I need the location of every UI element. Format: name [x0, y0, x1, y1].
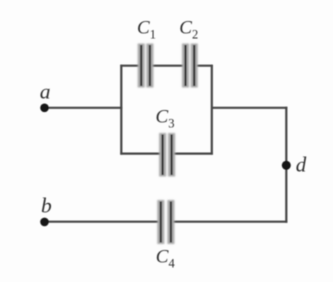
svg-text:b: b [41, 193, 52, 217]
node d (junction dot) [282, 161, 291, 170]
capacitor C2 [186, 44, 195, 88]
wire bottom branch node b to C4 [45, 221, 160, 223]
capacitor C4 [161, 200, 171, 244]
node b (terminal dot) [40, 218, 49, 227]
wire top branch left segment [120, 65, 140, 67]
wire outer right vertical [285, 107, 287, 223]
svg-text:d: d [296, 152, 307, 176]
node a (terminal dot) [40, 104, 49, 113]
wire top branch right segment [195, 65, 213, 67]
capacitor C3 [163, 133, 172, 177]
wire middle branch right segment [173, 153, 213, 155]
capacitor C1 [141, 44, 150, 88]
wire right rail to outer corner [212, 107, 287, 109]
wire right rail (vertical) [211, 65, 213, 155]
wire left rail (vertical) [120, 65, 122, 155]
wire middle branch left segment [120, 153, 161, 155]
svg-text:a: a [40, 79, 51, 103]
wire node a to left rail [45, 107, 123, 109]
wire top branch between C1 and C2 [151, 65, 184, 67]
wire bottom branch C4 to outer corner [172, 221, 287, 223]
